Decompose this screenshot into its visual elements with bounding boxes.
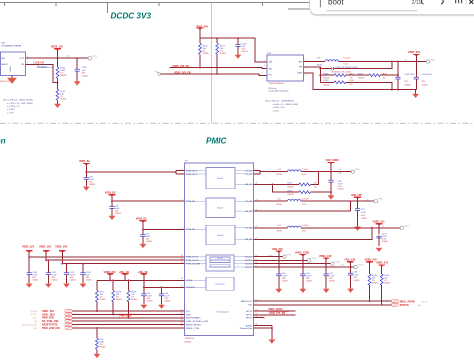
svg-text:PVIN_B3: PVIN_B3 [186,229,196,231]
capacitor C97 [142,229,144,244]
svg-text:R0402: R0402 [60,98,67,100]
TP18 connector [331,262,334,265]
svg-text:TP17: TP17 [404,226,410,228]
svg-text:= 1.21V x 1.1: = 1.21V x 1.1 [7,106,21,108]
svg-text:R0402: R0402 [220,53,227,55]
svg-text:VDDA_1V8B: VDDA_1V8B [295,251,309,254]
capacitor C63 [161,287,163,304]
ground C112 [45,284,52,288]
svg-text:10V: 10V [82,73,86,75]
svg-text:VDD5_1V8: VDD5_1V8 [51,45,64,48]
wire GPO3 nc [254,317,264,319]
wire PG net [161,74,267,75]
ground C98 [328,195,335,199]
svg-text:TP21: TP21 [92,56,98,58]
svg-text:EN: EN [269,69,272,71]
svg-text:sand_0d6_rotationm: sand_0d6_rotationm [269,89,289,92]
resistor R245 lower [320,82,392,89]
svg-text:PMIC_GPO2: PMIC_GPO2 [269,308,284,311]
svg-text:C0603: C0603 [89,184,96,186]
svg-text:AMUXOUT: AMUXOUT [241,300,253,303]
svg-text:DCDC 3V3: DCDC 3V3 [111,11,152,20]
wire AMUXOUT [254,300,392,302]
resistor R191 pullup [128,280,130,317]
svg-text:(16): (16) [33,328,37,330]
wire SW rail [304,61,427,63]
ground C62 [140,305,147,309]
svg-text:VLDO3: VLDO3 [245,264,253,266]
capacitor C44 [278,257,280,289]
svg-text:VDD_3V3: VDD_3V3 [272,248,283,251]
wire FB_B1 [254,184,299,192]
svg-text:FB_B3: FB_B3 [245,239,252,241]
svg-text:GPO2: GPO2 [246,311,253,313]
wire PVIN_B1 [86,171,184,174]
svg-text:VDD5_B3: VDD5_B3 [136,217,147,220]
resistor R102 [199,38,201,67]
svg-text:2R2B: 2R2B [277,174,283,176]
svg-text:3: 3 [264,60,265,62]
svg-text:R0402: R0402 [323,84,330,86]
wire INT [254,304,392,306]
capacitor C105 [415,62,417,90]
svg-text:2R2B: 2R2B [317,64,323,66]
svg-text:C0805: C0805 [338,188,345,190]
svg-text:LX_B1: LX_B1 [245,174,252,176]
svg-text:2R2B: 2R2B [277,230,283,232]
svg-text:GND: GND [10,66,12,71]
wire OUT rail [26,57,89,59]
wire VDDSHV row [144,286,185,288]
svg-text:26: 26 [181,322,183,324]
svg-text:1%: 1% [350,84,353,86]
sheet boundary dashed [0,122,474,124]
svg-text:VDD_1V8: VDD_1V8 [344,258,355,261]
buck converter U12 [267,55,304,81]
svg-text:= 1.21V x (1 + 100 / 1000): = 1.21V x (1 + 100 / 1000) [7,103,33,105]
svg-text:1: 1 [264,65,265,67]
ground C100 [235,55,242,59]
wire EN net [170,68,267,69]
svg-text:VDD_CORE: VDD_CORE [326,159,340,162]
svg-text:1x: 1x [382,225,385,227]
svg-text:C99: C99 [361,209,366,211]
svg-text:R0402: R0402 [116,299,123,301]
alias PWR_BTN [120,313,138,315]
inductor L14 [287,170,301,172]
svg-text:Buck1: Buck1 [218,178,225,180]
sub-block Buck2 [206,198,235,217]
wire LX_B1 [254,171,352,174]
sub-block LDOs [206,255,234,271]
svg-text:TPS6521x: TPS6521x [185,338,196,340]
svg-text:30: 30 [181,278,183,280]
wire PVIN_B2 [112,200,184,202]
find bar [310,0,474,16]
resistor R107 [216,38,218,74]
capacitor C48 [350,267,352,289]
svg-text:VLDO4: VLDO4 [245,267,253,269]
inductor L16 [325,60,339,62]
svg-text:C0402: C0402 [32,279,39,281]
svg-text:0.2uH: 0.2uH [302,169,308,171]
svg-text:PVIN_LDO1: PVIN_LDO1 [186,257,199,259]
sub-block Buck1 [206,168,235,189]
svg-text:R245: R245 [323,80,329,82]
svg-text:TLV62569DBVR: TLV62569DBVR [269,83,285,85]
sub-block DFT LDO [206,277,234,290]
svg-text:1.3x: 1.3x [340,264,345,266]
svg-text:L17: L17 [277,225,281,227]
wire LX_B3 [254,227,401,229]
svg-text:1.5A: 1.5A [337,172,342,175]
TP16 connector [374,200,377,203]
svg-text:FB_B1: FB_B1 [245,184,252,186]
svg-text:C0402: C0402 [51,279,58,281]
capacitor C106 [28,257,30,284]
svg-text:on: on [0,137,6,146]
svg-text:LX_B1: LX_B1 [245,171,252,173]
svg-text:VDD5_3V3: VDD5_3V3 [376,262,389,265]
caret [319,0,321,7]
TP21 connector [88,57,91,60]
svg-text:LDO1: LDO1 [217,258,223,260]
capacitor C113 [66,264,68,284]
svg-text:VLDO2: VLDO2 [245,260,253,262]
svg-text:MODE_CTRL: MODE_CTRL [186,328,200,330]
TP10 connector [426,60,429,63]
svg-text:C0402: C0402 [164,300,171,302]
ground C109 [80,284,87,288]
svg-text:EN/PB/GPADC: EN/PB/GPADC [186,317,201,320]
capacitor C47 [325,264,327,289]
wire VIN rail [200,38,267,62]
capacitor C98 [330,172,332,196]
svg-text:GND: GND [297,73,302,75]
svg-text:MODE_RESET: MODE_RESET [186,325,202,327]
svg-text:C0402: C0402 [147,300,154,302]
svg-text:Thermal Pad: Thermal Pad [239,327,252,330]
chevron [421,0,423,4]
wire VLDO4 [254,266,354,268]
svg-text:R246: R246 [323,74,329,76]
svg-text:2: 2 [305,74,306,76]
svg-text:C0402: C0402 [86,279,93,281]
svg-text:VDD5_3V3: VDD5_3V3 [22,246,35,249]
svg-text:VDD5_1V8: VDD5_1V8 [39,246,52,249]
svg-text:C246 (TP-130uF 12.2K): C246 (TP-130uF 12.2K) [336,67,358,69]
capacitor C96 [111,201,113,216]
ground U10 [11,76,13,78]
svg-text:TP11: TP11 [286,254,292,256]
resistor R96 pulldown [96,328,98,354]
svg-text:201K: 201K [349,74,354,76]
sub-block Buck3 [206,225,235,245]
svg-text:2/11: 2/11 [412,0,422,6]
svg-text:= 3.2V: = 3.2V [273,110,280,112]
svg-text:20V: 20V [404,81,408,83]
svg-text:C0402: C0402 [353,280,360,282]
wire AGND [254,326,272,340]
svg-text:VIN: VIN [1,58,5,60]
global label INT [391,303,398,306]
regulator U10 [1,52,26,76]
TP14 connector [307,259,310,262]
svg-text:LX_B3: LX_B3 [245,228,252,230]
wire FB_B3 [254,228,372,240]
svg-text:1.3x: 1.3x [66,56,71,58]
ground C44 [275,289,282,293]
svg-text:VDD_1V8: VDD_1V8 [351,194,362,197]
wire PVIN_B3 [143,228,184,230]
wire VLDO2 [254,259,308,261]
svg-text:(15,17): (15,17) [422,301,428,303]
TP17 connector [400,226,403,229]
wire LX_B2 [254,200,375,202]
svg-text:VDD5_1V2: VDD5_1V2 [373,220,386,223]
svg-text:PVIN_B1_1: PVIN_B1_1 [186,171,198,173]
svg-text:VDDA_1V8: VDDA_1V8 [319,255,332,258]
svg-text:R0402: R0402 [372,282,379,284]
svg-text:C0402: C0402 [82,76,89,78]
svg-text:C48: C48 [353,272,358,274]
svg-text:VDD5_3V3: VDD5_3V3 [55,246,68,249]
svg-text:QFN32: QFN32 [185,341,193,343]
svg-text:4.7uF: 4.7uF [361,212,367,214]
svg-text:(2,7): (2,7) [33,318,37,320]
divider [465,0,467,5]
svg-text:6.3V: 6.3V [361,215,366,217]
TP11 connector [283,255,286,258]
svg-text:C104 22uF: C104 22uF [404,74,415,76]
svg-text:L1V8_FB: L1V8_FB [34,62,45,65]
findbar panel [310,0,474,15]
resistor R211 [57,58,59,82]
svg-text:100K: 100K [349,80,354,82]
zone divider [210,3,212,123]
wire VLDO3 [254,263,331,265]
svg-text:0.04: 0.04 [302,230,307,232]
svg-text:0.47uH: 0.47uH [302,199,309,201]
svg-text:0.04: 0.04 [344,64,349,66]
capacitor C112 [47,260,49,283]
TP15 connector [354,265,357,268]
svg-text:= 0.6V x 5.3: = 0.6V x 5.3 [273,107,286,109]
PMIC U7 [184,163,253,335]
marks [456,0,462,3]
svg-text:C0603: C0603 [241,51,248,53]
svg-text:VDD5_B1: VDD5_B1 [79,160,90,163]
capacitor C99 [357,201,359,226]
svg-text:1%: 1% [350,77,353,79]
svg-text:U10: U10 [1,42,6,44]
svg-text:TPS65218: TPS65218 [216,310,229,314]
resistor R247 [380,74,398,76]
svg-text:(18): (18) [418,305,422,307]
svg-text:GPO1: GPO1 [246,315,253,317]
svg-text:VDD5_B2: VDD5_B2 [105,191,116,194]
svg-text:Buck2: Buck2 [218,208,225,210]
svg-text:GPO3: GPO3 [246,318,253,320]
svg-text:OUT: OUT [19,58,24,60]
wire VLDO1 [254,256,283,258]
node junction out [57,57,59,59]
resistor R228 pullup [112,280,114,314]
svg-text:0.47uH: 0.47uH [344,57,351,59]
svg-text:FB_B2: FB_B2 [245,211,252,213]
svg-text:PVIN_B1_2: PVIN_B1_2 [186,174,198,176]
svg-text:DDR_VTT_EN: DDR_VTT_EN [269,312,285,315]
svg-text:TP16: TP16 [378,199,384,201]
svg-text:TP13: TP13 [355,169,361,171]
svg-text:TP18: TP18 [334,262,340,264]
svg-text:TP10: TP10 [430,59,436,61]
svg-text:C0402: C0402 [282,280,289,282]
svg-text:C0402: C0402 [70,279,77,281]
hook2 [441,0,443,4]
capacitor C62 [143,287,145,304]
ground C47 [323,289,330,293]
resistor R120 [299,191,310,194]
svg-text:0.47uH: 0.47uH [302,225,309,227]
svg-text:L14: L14 [277,169,281,171]
resistor R94 pullup [96,280,98,311]
svg-text:4: 4 [305,67,306,69]
svg-text:2: 2 [262,72,263,74]
sheet corner line [288,8,311,10]
svg-text:27: 27 [181,326,183,328]
ground C99 [354,227,361,231]
capacitor C202 [76,58,78,81]
svg-text:(13,16): (13,16) [31,314,37,316]
TP13 connector [351,170,354,173]
svg-text:PWR_BTN: PWR_BTN [120,315,132,318]
svg-text:L15: L15 [277,199,281,201]
svg-text:PexES01: PexES01 [38,66,48,68]
global label PGOOD [391,300,398,303]
wire FB_B2 [254,201,351,211]
svg-text:C0805: C0805 [361,218,368,220]
capacitor C104 [397,62,399,90]
resistor R196 [380,274,383,285]
svg-text:(8): (8) [34,321,37,323]
svg-text:R0402: R0402 [288,194,295,196]
resistor R122 [299,183,310,186]
svg-text:C0402: C0402 [306,280,313,282]
resistor R212 [57,83,59,104]
inductor L17 [287,226,301,228]
svg-text:VDD5_3V3: VDD5_3V3 [408,51,421,54]
wire FB node [304,67,321,83]
svg-text:AGND: AGND [246,324,253,327]
ground C63 [158,305,165,309]
port connector [158,73,161,76]
sheet top border [0,3,474,13]
ground C101 [376,248,383,252]
svg-text:1uF: 1uF [82,70,86,72]
svg-text:boot: boot [328,0,344,7]
svg-text:R0402: R0402 [203,53,210,55]
resistor R246 [320,74,369,76]
wire VDDS row [97,279,184,281]
svg-text:VDDSHV: VDDSHV [186,287,196,289]
wire rail LDO3 [62,263,184,265]
svg-text:1%: 1% [383,77,386,79]
svg-text:R0402: R0402 [100,346,107,348]
svg-text:VSEL_SD/VSEL_DDR: VSEL_SD/VSEL_DDR [186,321,208,323]
svg-text:PVIN_B2: PVIN_B2 [186,201,196,203]
svg-text:VDD5_3V3_EN: VDD5_3V3_EN [174,71,191,74]
svg-text:Vout = Vfb x (1 + R211 / R212): Vout = Vfb x (1 + R211 / R212) [3,99,33,102]
svg-text:R0402: R0402 [60,75,67,77]
capacitor C45 [302,260,304,288]
svg-text:R0402: R0402 [131,299,138,301]
ground C106 [26,284,33,288]
svg-text:VDDS: VDDS [186,280,193,282]
capacitor C100 [237,38,239,54]
svg-text:Buck3: Buck3 [218,235,225,237]
ground out rail [415,90,417,94]
findbar shadow [310,0,474,16]
svg-text:= 0.6V x (1 + 4300 / 1000): = 0.6V x (1 + 4300 / 1000) [273,104,299,106]
resistor R195 [368,274,371,285]
svg-text:SGFC2x4: SGFC2x4 [0,81,10,83]
ground AGND [269,340,276,344]
input underline [327,10,418,12]
svg-text:Vout = Vfb x (1 + R246/R245): Vout = Vfb x (1 + R246/R245) [265,100,294,103]
svg-text:R120: R120 [288,190,294,192]
svg-text:R0402: R0402 [100,299,107,301]
ground C95 [83,187,90,191]
svg-text:SHDN: SHDN [1,64,8,66]
svg-text:20V: 20V [422,81,426,83]
svg-text:DFT LDO: DFT LDO [216,284,225,286]
svg-text:PVIN_LDO3M: PVIN_LDO3M [186,264,200,266]
svg-text:PG: PG [269,74,272,76]
svg-text:1%: 1% [314,186,317,188]
svg-text:VDD5_2V5_EN: VDD5_2V5_EN [172,65,189,68]
wire rail LDO1 [29,256,184,258]
svg-text:VIN: VIN [269,62,273,64]
capacitor C109 [82,264,84,284]
svg-text:R0402: R0402 [384,282,391,284]
svg-text:VLDO1: VLDO1 [245,257,253,259]
capacitor C95 [85,172,87,187]
svg-text:16V: 16V [353,277,357,279]
svg-text:C105 22uF: C105 22uF [422,74,433,76]
svg-text:PWD_uPW_EIN: PWD_uPW_EIN [42,327,60,330]
svg-text:= 1.3V: = 1.3V [7,112,14,114]
ground C96 [109,216,116,220]
svg-text:0.04: 0.04 [302,204,307,206]
svg-text:TP14: TP14 [311,258,317,260]
svg-text:2R2B: 2R2B [277,204,283,206]
ground C113 [63,284,70,288]
svg-text:0.04: 0.04 [302,174,307,176]
svg-text:R0402: R0402 [288,186,295,188]
svg-text:C0603: C0603 [146,241,153,243]
svg-text:C0805: C0805 [382,241,389,243]
svg-text:C0805: C0805 [422,84,429,86]
svg-text:INTSTN: INTSTN [400,304,409,307]
svg-text:(8,10,11,12,14,16): (8,10,11,12,14,16) [22,325,37,327]
svg-text:TP15: TP15 [358,264,364,266]
svg-text:C202: C202 [82,67,88,69]
svg-text:R0402: R0402 [358,77,365,79]
wire GPO2 [254,310,296,312]
svg-text:PMIC: PMIC [206,137,228,146]
ground C48 [347,289,354,293]
